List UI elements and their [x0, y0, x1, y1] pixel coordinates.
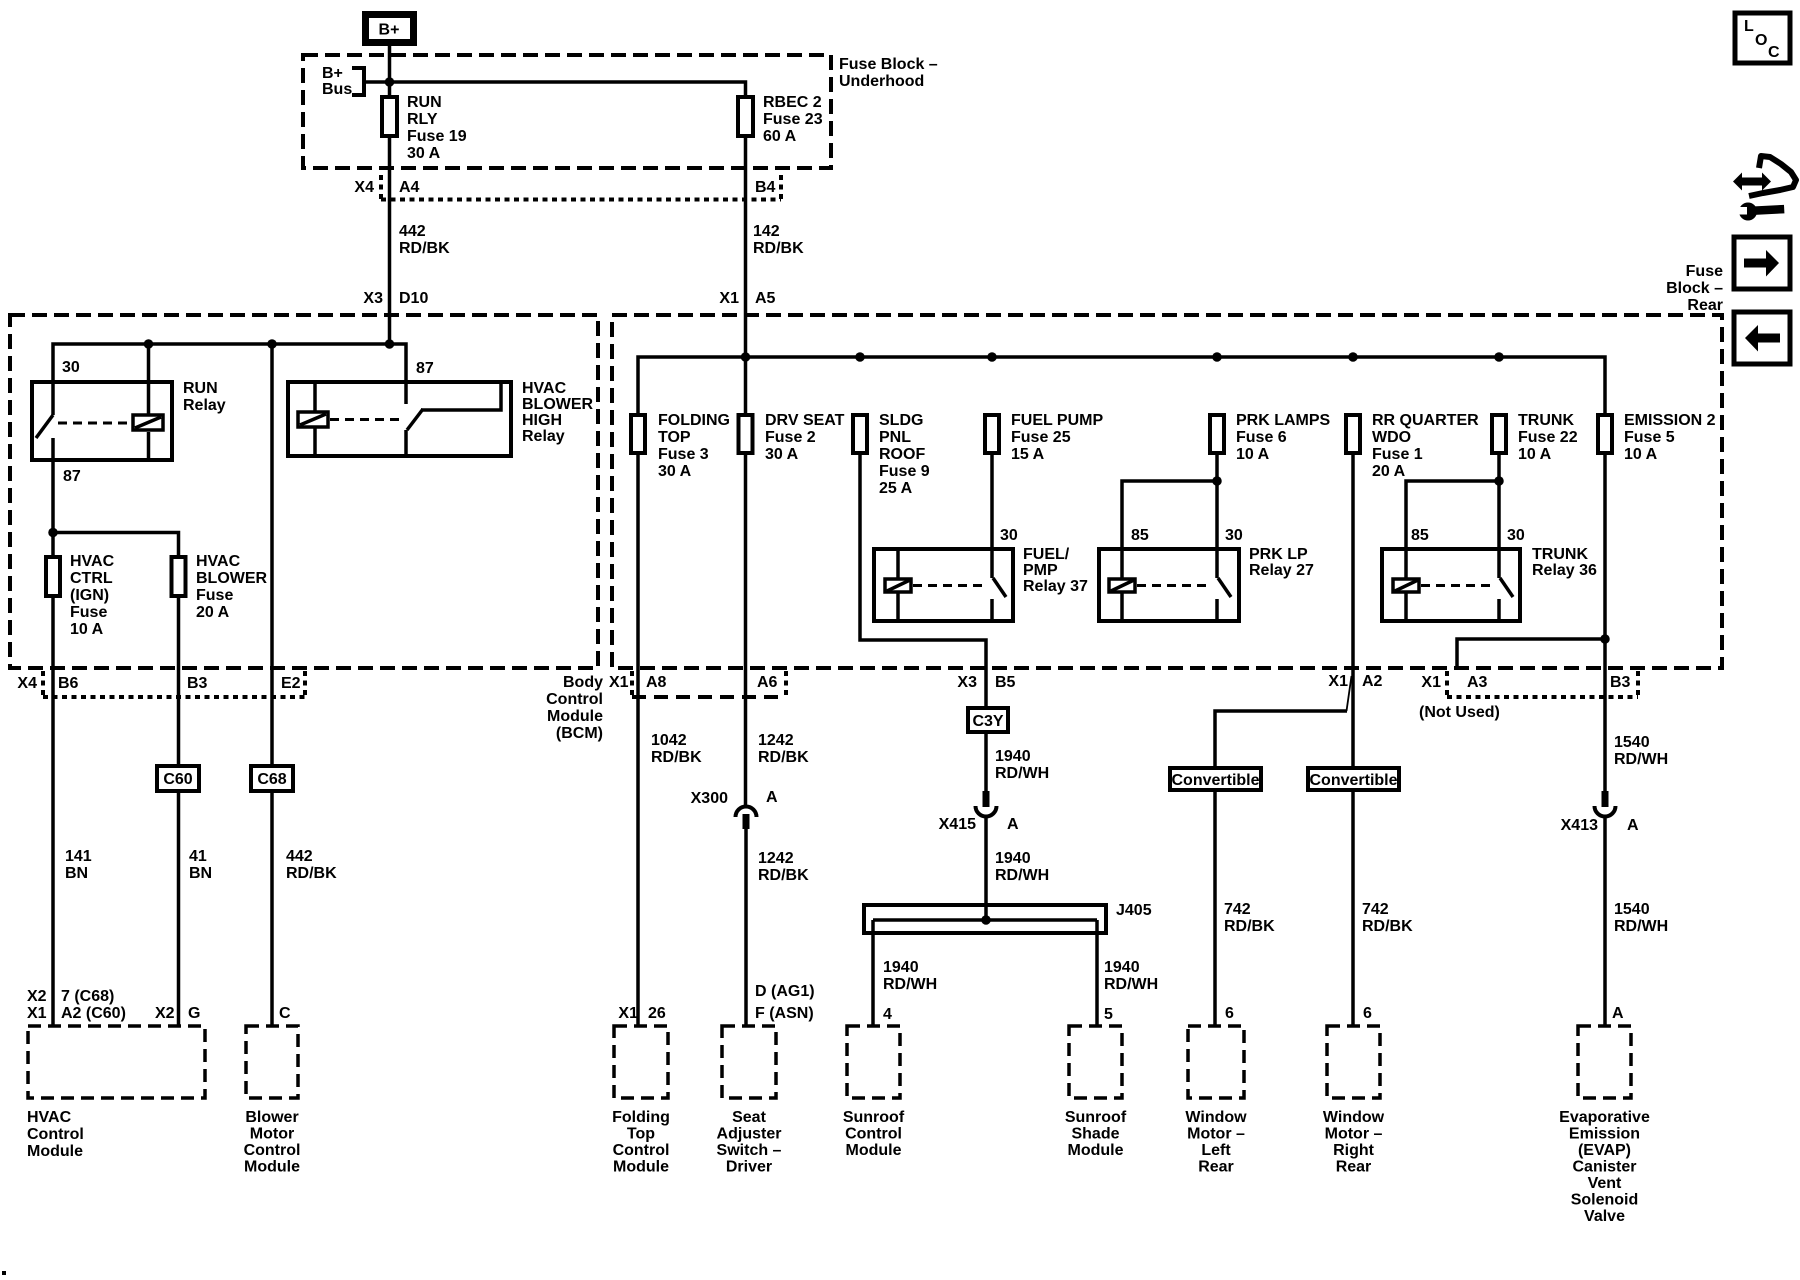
wire HVAC relay coil to box bottom [313, 428, 317, 458]
svg-text:Fuse 22: Fuse 22 [1518, 429, 1578, 446]
wire TRUNK 85 branch [1406, 481, 1499, 578]
junction dot bus SLDG [855, 352, 865, 362]
svg-text:(EVAP): (EVAP) [1578, 1142, 1631, 1159]
svg-text:RR QUARTER: RR QUARTER [1372, 412, 1479, 429]
svg-text:TOP: TOP [658, 429, 691, 446]
pin X1 A2 [1328, 673, 1382, 690]
svg-text:30: 30 [1507, 527, 1525, 544]
svg-text:TRUNK: TRUNK [1518, 412, 1574, 429]
svg-text:B5: B5 [995, 674, 1016, 691]
connector row X1 A8 A6 (dotted) [632, 671, 786, 699]
flag Convertible left [1170, 768, 1261, 790]
svg-text:Window: Window [1185, 1109, 1247, 1126]
svg-text:25 A: 25 A [879, 480, 913, 497]
svg-text:20 A: 20 A [1372, 463, 1406, 480]
svg-text:CTRL: CTRL [70, 570, 113, 587]
pin D (AG1) F (ASN) seat switch [755, 983, 815, 1022]
fuse RBEC 2 Fuse 23 [738, 94, 823, 145]
HVAC relay coil [298, 412, 328, 427]
RUN relay coil link dashed [58, 422, 131, 425]
svg-text:Control: Control [613, 1142, 670, 1159]
svg-text:7 (C68): 7 (C68) [61, 988, 114, 1005]
svg-text:Fuse: Fuse [1686, 263, 1723, 280]
EVAP Canister Vent Solenoid Valve box [1559, 1026, 1650, 1225]
artifact dot bottom left [2, 1271, 6, 1275]
node B+ Bus [322, 65, 364, 98]
fuse DRV SEAT Fuse 2 [739, 412, 845, 463]
wire C3Y to X415 [984, 732, 988, 807]
svg-text:1940: 1940 [883, 959, 919, 976]
svg-text:Module: Module [547, 708, 603, 725]
inline connector X413 A [1561, 791, 1639, 834]
fuse EMISSION 2 Fuse 5 [1598, 412, 1716, 463]
Sunroof Shade Module box [1065, 1026, 1127, 1159]
label wire 442 RD/BK lower [286, 848, 337, 882]
svg-text:Module: Module [613, 1159, 669, 1176]
wire 1242 RD/BK drv seat upper [744, 453, 748, 807]
svg-text:1540: 1540 [1614, 734, 1650, 751]
wire A2 jog [1347, 676, 1352, 711]
wire not-used branch to A3 [1457, 639, 1605, 668]
svg-text:A2: A2 [1362, 673, 1383, 690]
svg-text:142: 142 [753, 223, 780, 240]
label wire 742 RD/BK left [1224, 901, 1275, 935]
svg-text:RD/WH: RD/WH [1614, 918, 1668, 935]
svg-text:RD/BK: RD/BK [753, 240, 804, 257]
svg-text:Fuse 23: Fuse 23 [763, 111, 823, 128]
svg-text:C: C [1768, 44, 1780, 61]
FUEL/PMP relay coil [885, 579, 911, 592]
junction dot bus A5/DRV SEAT [741, 352, 751, 362]
svg-text:Bus: Bus [322, 81, 352, 98]
inline connector C60 [157, 766, 199, 791]
svg-text:X1: X1 [1328, 673, 1348, 690]
svg-text:FUEL/: FUEL/ [1023, 546, 1070, 563]
svg-text:Vent: Vent [1588, 1175, 1622, 1192]
svg-text:742: 742 [1362, 901, 1389, 918]
wire TRUNK fuse to relay 30 [1497, 453, 1501, 578]
svg-text:B6: B6 [58, 675, 79, 692]
Fuse Block - Underhood box [303, 55, 831, 168]
svg-text:10 A: 10 A [70, 621, 104, 638]
svg-text:Motor –: Motor – [1325, 1126, 1383, 1143]
svg-text:RUN: RUN [183, 380, 218, 397]
junction dot 87 branch [48, 528, 58, 538]
wire 1242 RD/BK lower [744, 829, 748, 1026]
svg-text:RD/BK: RD/BK [286, 865, 337, 882]
Fuse Block - Rear dashed box [612, 315, 1722, 668]
svg-text:Motor: Motor [250, 1126, 294, 1143]
junction dot emission branch [1600, 634, 1610, 644]
svg-text:Window: Window [1323, 1109, 1385, 1126]
svg-text:5: 5 [1104, 1006, 1113, 1023]
FUEL/PMP relay switch bottom stub [990, 599, 994, 621]
label wire 1242 RD/BK upper [758, 732, 809, 766]
svg-text:RBEC 2: RBEC 2 [763, 94, 822, 111]
svg-text:Control: Control [546, 691, 603, 708]
label wire 1940 RD/WH right [1104, 959, 1158, 993]
svg-text:RD/BK: RD/BK [1362, 918, 1413, 935]
svg-text:26: 26 [648, 1005, 666, 1022]
svg-text:C68: C68 [257, 771, 286, 788]
svg-text:30: 30 [1000, 527, 1018, 544]
junction dot PRK branch [1212, 476, 1222, 486]
svg-text:A: A [1627, 817, 1639, 834]
HVAC relay switch output [421, 382, 501, 410]
svg-text:RD/WH: RD/WH [1104, 976, 1158, 993]
svg-text:A4: A4 [399, 179, 420, 196]
svg-text:Convertible: Convertible [1171, 772, 1259, 789]
svg-text:RD/BK: RD/BK [758, 749, 809, 766]
wire 742 RD/BK left [1213, 790, 1217, 1026]
label wire 1940 RD/WH middle [995, 850, 1049, 884]
svg-text:Canister: Canister [1572, 1159, 1636, 1176]
wire 41 BN fuse to B3 [177, 596, 181, 766]
svg-text:6: 6 [1363, 1005, 1372, 1022]
svg-text:15 A: 15 A [1011, 446, 1045, 463]
svg-text:A8: A8 [646, 674, 667, 691]
fuse FOLDING TOP Fuse 3 [631, 412, 730, 480]
wire RUN relay 87 down [51, 438, 55, 557]
svg-text:Module: Module [1068, 1142, 1124, 1159]
svg-text:Rear: Rear [1687, 297, 1723, 314]
inline connector C3Y [968, 708, 1008, 732]
wire left box bus [53, 344, 406, 415]
svg-text:RD/BK: RD/BK [1224, 918, 1275, 935]
junction dot bus-E2 branch [267, 339, 277, 349]
svg-text:Fuse: Fuse [196, 587, 233, 604]
svg-text:FUEL PUMP: FUEL PUMP [1011, 412, 1103, 429]
svg-text:Module: Module [244, 1159, 300, 1176]
svg-text:B3: B3 [1610, 674, 1631, 691]
wire FUEL/PMP coil feed [896, 549, 900, 578]
svg-text:Rear: Rear [1336, 1159, 1372, 1176]
PRK relay coil [1109, 579, 1135, 592]
svg-text:Fuse 1: Fuse 1 [1372, 446, 1423, 463]
svg-text:X1: X1 [1421, 674, 1441, 691]
wire PRK 85 branch [1122, 481, 1217, 578]
label wire 1242 RD/BK lower [758, 850, 809, 884]
label Fuse Block - Rear [1666, 263, 1723, 314]
svg-text:Rear: Rear [1198, 1159, 1234, 1176]
svg-text:Folding: Folding [612, 1109, 670, 1126]
pin X3 D10 [363, 290, 428, 307]
svg-text:(BCM): (BCM) [556, 725, 603, 742]
svg-text:(IGN): (IGN) [70, 587, 109, 604]
svg-text:PNL: PNL [879, 429, 911, 446]
icon left arrow box [1734, 312, 1790, 364]
svg-text:RD/WH: RD/WH [1614, 751, 1668, 768]
wire RUN relay coil to box bottom [147, 432, 151, 462]
wire 442 RD/BK fuse19 to BCM D10 [388, 136, 392, 344]
svg-text:X4: X4 [354, 179, 374, 196]
connector row X4 BCM left (dotted) [17, 671, 305, 699]
svg-text:RD/BK: RD/BK [399, 240, 450, 257]
svg-text:Fuse 2: Fuse 2 [765, 429, 816, 446]
svg-text:Evaporative: Evaporative [1559, 1109, 1650, 1126]
svg-text:ROOF: ROOF [879, 446, 925, 463]
svg-text:85: 85 [1411, 527, 1429, 544]
svg-text:X2: X2 [155, 1005, 175, 1022]
RUN relay switch blade [36, 415, 53, 438]
junction dot bus TRUNK [1494, 352, 1504, 362]
label wire 1540 RD/WH upper [1614, 734, 1668, 768]
svg-text:Control: Control [244, 1142, 301, 1159]
pin X1 26 folding top module [618, 1005, 665, 1022]
wire 1940 RD/WH to sunroof shade [1095, 920, 1099, 1026]
svg-text:(Not Used): (Not Used) [1419, 704, 1500, 721]
wire 141 BN fuse to B6 [51, 596, 55, 1026]
inline connector C68 [251, 766, 293, 791]
svg-text:87: 87 [416, 360, 434, 377]
svg-text:Control: Control [27, 1126, 84, 1143]
svg-text:30: 30 [62, 359, 80, 376]
connector row X1 A3 B3 (dotted) [1421, 671, 1638, 699]
junction dot bus FUEL PUMP [987, 352, 997, 362]
relay FUEL/PMP Relay 37 [874, 546, 1088, 621]
power symbol B+ [366, 15, 414, 43]
TRUNK relay coil link dashed [1421, 584, 1493, 587]
svg-text:BLOWER: BLOWER [196, 570, 268, 587]
svg-text:1540: 1540 [1614, 901, 1650, 918]
svg-text:Fuse 5: Fuse 5 [1624, 429, 1675, 446]
svg-text:30 A: 30 A [407, 145, 441, 162]
icon adjust arrow with wrench [1733, 156, 1796, 221]
relay HVAC BLOWER HIGH Relay [288, 380, 594, 456]
svg-text:Valve: Valve [1584, 1208, 1625, 1225]
wire PRK LAMPS fuse to relay 30 [1215, 453, 1219, 578]
svg-text:Left: Left [1201, 1142, 1231, 1159]
Seat Adjuster Switch - Driver box [717, 1026, 782, 1176]
svg-text:141: 141 [65, 848, 92, 865]
svg-text:442: 442 [286, 848, 313, 865]
svg-text:TRUNK: TRUNK [1532, 546, 1588, 563]
svg-text:Blower: Blower [245, 1109, 298, 1126]
fuse PRK LAMPS Fuse 6 [1210, 412, 1331, 463]
svg-text:RD/BK: RD/BK [758, 867, 809, 884]
svg-text:Motor –: Motor – [1187, 1126, 1245, 1143]
junction dot TRUNK branch [1494, 476, 1504, 486]
svg-text:HVAC: HVAC [522, 380, 567, 397]
label wire 1940 RD/WH upper [995, 748, 1049, 782]
junction dot bus RR QUARTER [1348, 352, 1358, 362]
svg-text:X3: X3 [363, 290, 383, 307]
svg-text:Solenoid: Solenoid [1571, 1192, 1639, 1209]
svg-text:Body: Body [563, 674, 603, 691]
label Fuse Block - Underhood [839, 56, 938, 90]
svg-text:HIGH: HIGH [522, 412, 562, 429]
wire RR QUARTER fuse to A2 [1351, 453, 1355, 768]
label wire 1042 RD/BK [651, 732, 702, 766]
svg-text:A2 (C60): A2 (C60) [61, 1005, 126, 1022]
pin labels X2/X1 7/A2 HVAC control module [27, 988, 200, 1022]
icon LOC box [1735, 13, 1790, 63]
svg-text:RD/WH: RD/WH [995, 867, 1049, 884]
Blower Motor Control Module box [244, 1026, 301, 1176]
fuse HVAC BLOWER Fuse [172, 553, 268, 621]
svg-text:PMP: PMP [1023, 562, 1058, 579]
wire HVAC relay coil feed [313, 382, 317, 411]
wire FUEL/PMP coil to box bottom [896, 593, 900, 621]
svg-text:41: 41 [189, 848, 207, 865]
wire 442 RD/BK E2 branch [270, 344, 274, 766]
svg-text:PRK LAMPS: PRK LAMPS [1236, 412, 1331, 429]
relay PRK LP Relay 27 [1099, 546, 1314, 621]
svg-text:Shade: Shade [1071, 1126, 1119, 1143]
PRK relay switch bottom stub [1215, 599, 1219, 621]
svg-text:Fuse 25: Fuse 25 [1011, 429, 1071, 446]
svg-text:Top: Top [627, 1126, 655, 1143]
wire X413 to EVAP valve [1603, 816, 1607, 1026]
label wire 1940 RD/WH left [883, 959, 937, 993]
label wire 442 RD/BK [399, 223, 450, 257]
svg-text:Fuse Block –: Fuse Block – [839, 56, 938, 73]
svg-text:X300: X300 [691, 790, 728, 807]
BCM left dashed box [10, 315, 598, 668]
svg-text:Adjuster: Adjuster [717, 1126, 782, 1143]
svg-text:30 A: 30 A [765, 446, 799, 463]
Window Motor - Right Rear box [1323, 1026, 1385, 1176]
fuse SLDG PNL ROOF Fuse 9 [853, 412, 930, 497]
svg-text:6: 6 [1225, 1005, 1234, 1022]
pin X1 A5 [719, 290, 775, 307]
flag Convertible right [1308, 768, 1399, 790]
svg-text:10 A: 10 A [1518, 446, 1552, 463]
wire SLDG fuse to B5 [860, 453, 986, 708]
label Body Control Module (BCM) [546, 674, 629, 742]
svg-text:30: 30 [1225, 527, 1243, 544]
svg-text:WDO: WDO [1372, 429, 1411, 446]
label wire 41 BN [189, 848, 212, 882]
pin X3 B5 [957, 674, 1015, 691]
svg-text:Control: Control [845, 1126, 902, 1143]
svg-text:4: 4 [883, 1006, 892, 1023]
svg-text:1242: 1242 [758, 732, 794, 749]
FUEL/PMP relay coil link dashed [913, 584, 986, 587]
svg-text:A: A [1007, 816, 1019, 833]
wire 1042 RD/BK folding top [636, 453, 640, 1026]
HVAC relay switch bottom stub [404, 430, 408, 458]
svg-text:B+: B+ [379, 22, 400, 39]
svg-text:Switch –: Switch – [717, 1142, 782, 1159]
HVAC Control Module box [27, 1026, 205, 1160]
svg-text:SLDG: SLDG [879, 412, 923, 429]
svg-text:BLOWER: BLOWER [522, 396, 594, 413]
Window Motor - Left Rear box [1185, 1026, 1247, 1176]
svg-text:X415: X415 [939, 816, 976, 833]
label wire 1540 RD/WH lower [1614, 901, 1668, 935]
svg-text:1042: 1042 [651, 732, 687, 749]
junction dot bus-D10 feed [385, 339, 395, 349]
svg-text:Seat: Seat [732, 1109, 766, 1126]
svg-text:BN: BN [189, 865, 212, 882]
svg-text:B+: B+ [322, 65, 343, 82]
wire branch to HVAC BLOWER fuse [53, 533, 179, 558]
svg-text:10 A: 10 A [1236, 446, 1270, 463]
svg-text:A5: A5 [755, 290, 776, 307]
svg-text:B3: B3 [187, 675, 208, 692]
svg-text:DRV SEAT: DRV SEAT [765, 412, 845, 429]
svg-text:85: 85 [1131, 527, 1149, 544]
svg-text:RD/BK: RD/BK [651, 749, 702, 766]
svg-text:E2: E2 [281, 675, 301, 692]
svg-text:X413: X413 [1561, 817, 1598, 834]
svg-text:C3Y: C3Y [972, 713, 1003, 730]
svg-text:Sunroof: Sunroof [1065, 1109, 1127, 1126]
svg-text:G: G [188, 1005, 200, 1022]
svg-text:C: C [279, 1005, 291, 1022]
svg-text:Driver: Driver [726, 1159, 772, 1176]
TRUNK relay switch bottom stub [1497, 599, 1501, 621]
svg-text:X1: X1 [27, 1005, 47, 1022]
Folding Top Control Module box [612, 1026, 670, 1176]
svg-text:Relay 37: Relay 37 [1023, 578, 1088, 595]
svg-text:1940: 1940 [995, 748, 1031, 765]
svg-text:HVAC: HVAC [70, 553, 115, 570]
wire B+ bus horizontal [364, 82, 746, 96]
wire 1940 RD/WH to sunroof control [871, 920, 875, 1026]
junction dot bus PRK LAMPS [1212, 352, 1222, 362]
HVAC relay coil link dashed [330, 418, 400, 421]
wire right box bus [638, 357, 1605, 415]
svg-text:A: A [766, 789, 778, 806]
svg-text:Emission: Emission [1569, 1126, 1640, 1143]
svg-text:Fuse 6: Fuse 6 [1236, 429, 1287, 446]
splice pack J405 [864, 902, 1152, 933]
svg-text:1940: 1940 [995, 850, 1031, 867]
wire EMISSION 2 fuse to B3 [1603, 453, 1607, 791]
FUEL/PMP relay switch blade [993, 578, 1006, 597]
wire PRK coil to box bottom [1120, 593, 1124, 621]
svg-text:Fuse: Fuse [70, 604, 107, 621]
wire RUN relay coil feed [147, 344, 151, 414]
svg-text:J405: J405 [1116, 902, 1152, 919]
Sunroof Control Module box [843, 1026, 905, 1159]
svg-text:Underhood: Underhood [839, 73, 924, 90]
svg-text:A: A [1612, 1005, 1624, 1022]
relay RUN Relay [32, 380, 226, 460]
svg-text:30 A: 30 A [658, 463, 692, 480]
PRK relay coil link dashed [1137, 584, 1211, 587]
svg-text:BN: BN [65, 865, 88, 882]
svg-text:742: 742 [1224, 901, 1251, 918]
HVAC relay switch blade [407, 409, 423, 430]
icon right arrow box [1734, 237, 1790, 289]
svg-text:C60: C60 [163, 771, 192, 788]
svg-text:442: 442 [399, 223, 426, 240]
svg-text:10 A: 10 A [1624, 446, 1658, 463]
wire 442 RD/BK below C68 [270, 791, 274, 1026]
label wire 742 RD/BK right [1362, 901, 1413, 935]
svg-text:Right: Right [1333, 1142, 1375, 1159]
wire B+ to bus [388, 46, 392, 96]
svg-text:HVAC: HVAC [27, 1109, 72, 1126]
fuse RUN RLY Fuse 19 [382, 94, 467, 162]
svg-text:D10: D10 [399, 290, 428, 307]
wire branch to left convertible [1215, 711, 1347, 768]
wire TRUNK coil to box bottom [1404, 593, 1408, 621]
svg-text:F (ASN): F (ASN) [755, 1005, 814, 1022]
inline connector X300 A [691, 789, 778, 829]
svg-text:RD/WH: RD/WH [995, 765, 1049, 782]
svg-text:L: L [1744, 18, 1754, 35]
svg-text:20 A: 20 A [196, 604, 230, 621]
TRUNK relay switch blade [1500, 578, 1513, 597]
svg-text:Relay: Relay [183, 397, 226, 414]
svg-text:X1: X1 [618, 1005, 638, 1022]
svg-text:Fuse 3: Fuse 3 [658, 446, 709, 463]
wire 142 RD/BK fuse23 to fuseblock rear A5 [744, 136, 748, 414]
